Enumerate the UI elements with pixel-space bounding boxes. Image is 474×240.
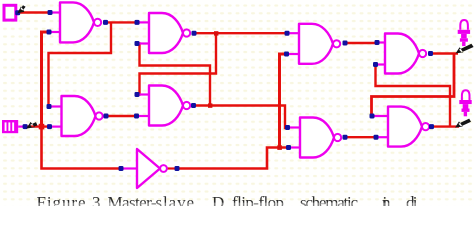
- NAND gate G6: [300, 118, 341, 158]
- wire Q: G7 out to probe1: [431, 52, 459, 54]
- node G4 in2: [134, 114, 139, 119]
- node G7 in1: [375, 40, 380, 45]
- node G7 in2: [373, 62, 378, 67]
- node G2 in2: [135, 41, 140, 46]
- wire G1 out to G2 in1: [106, 21, 141, 23]
- wire inverter out to G6 in2 and G5 in2: [177, 148, 289, 169]
- wire G5 out to G7 in1: [345, 42, 377, 44]
- G1 pins: [48, 11, 61, 13]
- G4 pins: [137, 93, 151, 95]
- wire CLK dropper to inverter input: [42, 127, 122, 169]
- junction G4out branch: [208, 103, 212, 107]
- node CLK source: [23, 124, 28, 129]
- node INV in: [119, 166, 124, 171]
- node G1 in1: [48, 10, 53, 15]
- NAND gate G7: [385, 34, 426, 74]
- junction CLKbar node: [277, 145, 282, 150]
- wire G2 out branch to G4 in1: [137, 33, 216, 94]
- wire Q branch to G8 in1: [372, 54, 455, 117]
- wire G3 out to G4 in2: [106, 115, 137, 117]
- pin stubs magenta: [48, 13, 389, 169]
- node D port: [15, 10, 20, 15]
- inverter U9: [137, 149, 167, 188]
- NAND gate G1: [60, 2, 101, 42]
- wire Qbar branch to G7 in2: [376, 65, 451, 127]
- G6 pins: [288, 126, 302, 128]
- node G6 in1: [285, 125, 290, 130]
- arrow at CLK: [26, 122, 37, 129]
- node G3 in2: [47, 124, 52, 129]
- G3 pins: [49, 105, 63, 107]
- G2 pins: [137, 21, 150, 23]
- node G8 in1: [370, 114, 375, 119]
- junction G2out branch: [214, 31, 218, 35]
- arrow at probe Q: [456, 44, 474, 54]
- node G2 out: [192, 31, 197, 36]
- clock source CLK: [2, 120, 25, 133]
- probe Q: [458, 20, 470, 46]
- node G1 out: [103, 20, 108, 25]
- node G2 in1: [135, 20, 140, 25]
- junction CLK node: [39, 124, 45, 130]
- caption bottom fade: [28, 203, 474, 206]
- NAND gate G8: [388, 107, 429, 147]
- node G6 in2: [286, 145, 291, 150]
- node G7 out: [428, 51, 433, 56]
- wire CLKbar riser to G5 in2: [280, 54, 287, 148]
- INV output pin: [167, 167, 177, 169]
- node G8 in2: [374, 135, 379, 140]
- node G4 in1: [135, 92, 140, 97]
- wire G6 out to G8 in2: [345, 136, 376, 138]
- input port D: [4, 5, 16, 20]
- NAND gate G2: [149, 13, 190, 53]
- node G5 in1: [285, 31, 290, 36]
- node G4 out: [191, 103, 196, 108]
- G5 pins: [287, 32, 300, 34]
- wire G1 out branch to G3 in1: [49, 22, 112, 106]
- caption: [37, 193, 418, 212]
- INV input pin: [121, 167, 137, 169]
- wire CLK to G3 in2: [26, 125, 50, 127]
- G7 pins: [377, 41, 386, 43]
- NAND gate G5: [299, 24, 340, 64]
- wire G4 out to G2 in2: [137, 44, 210, 106]
- node G5 in2: [284, 52, 289, 57]
- node G1 in2: [47, 30, 52, 35]
- wire D to G1 in1: [19, 11, 50, 13]
- node G3 in1: [47, 104, 52, 109]
- NAND gate G4: [149, 86, 190, 126]
- wire CLK riser to G1 in2: [42, 32, 50, 127]
- wire G4 out to G6 in1: [194, 106, 288, 129]
- node G3 out: [104, 114, 109, 119]
- arrow at probe Qbar: [455, 119, 471, 128]
- NAND gate G3: [62, 96, 103, 136]
- wire Qbar: G8 out to probe2: [432, 125, 460, 127]
- node G8 out: [429, 124, 434, 129]
- arrow at D port: [17, 5, 25, 13]
- wire G2 out to G5 in1: [194, 32, 287, 34]
- node G5 out: [343, 41, 348, 46]
- G8 pins: [372, 115, 389, 117]
- probe Qbar: [459, 90, 471, 116]
- node G6 out: [343, 135, 348, 140]
- node INV out: [175, 166, 180, 171]
